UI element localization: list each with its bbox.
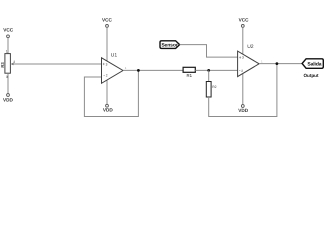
svg-text:3: 3 [106, 63, 108, 67]
svg-text:Salida: Salida [307, 62, 321, 68]
svg-text:2: 2 [241, 69, 243, 73]
svg-text:1: 1 [6, 50, 8, 54]
svg-text:U1: U1 [111, 52, 118, 58]
node junction at U2 output [276, 62, 279, 65]
power VCC (above U1) [102, 18, 113, 28]
wire U2 V- pin to VDD [242, 74, 244, 105]
svg-text:Output: Output [303, 73, 319, 78]
svg-text:U2: U2 [247, 44, 254, 50]
net label Sensor [160, 41, 180, 49]
wire U1 inverting input feedback loop [84, 70, 138, 116]
node junction at U1 output [137, 69, 140, 72]
svg-text:VCC: VCC [3, 27, 14, 32]
power VCC (above U2) [239, 18, 250, 28]
svg-text:VCC: VCC [102, 18, 113, 23]
resistor R1 [183, 67, 195, 78]
svg-text:VDD: VDD [3, 98, 14, 103]
svg-text:R3: R3 [0, 62, 5, 68]
svg-text:VDD: VDD [103, 108, 114, 113]
wire U1 output to R1 [123, 69, 183, 71]
resistor R2 [206, 82, 216, 98]
wire R1 to U2 inverting input [195, 69, 237, 71]
wire VCC to U1 V+ pin [106, 27, 108, 61]
wire U2 output to Salida [259, 63, 302, 65]
wire VCC to R3 top [7, 38, 9, 54]
svg-text:2: 2 [106, 74, 108, 78]
node junction R1/R2 [207, 69, 210, 72]
wire VCC to U2 V+ pin [242, 27, 244, 54]
wire U1 V- pin to VDD [106, 80, 108, 104]
op-amp U1 [102, 52, 127, 83]
svg-text:VCC: VCC [239, 18, 250, 23]
power VCC (left, for R3) [3, 27, 14, 37]
power VDD (below U1) [103, 104, 114, 112]
wire R3 bottom to VDD [7, 73, 9, 93]
svg-text:R2: R2 [212, 85, 216, 89]
wire R3 wiper to U1 noninverting input [11, 63, 102, 65]
net label Salida [302, 59, 323, 69]
svg-text:Sensor: Sensor [161, 43, 178, 49]
svg-text:VDD: VDD [238, 108, 249, 113]
wire junction down to R2 [208, 70, 210, 81]
power VDD (left, for R3) [3, 94, 14, 103]
svg-text:3: 3 [242, 56, 244, 60]
op-amp U2 [238, 44, 263, 77]
potentiometer R3 [0, 50, 15, 79]
wire R2 bottom to U2 output feedback [209, 64, 277, 117]
wire Sensor to U2 noninverting input [180, 45, 238, 58]
svg-text:R1: R1 [187, 73, 193, 78]
power VDD (below U2) [238, 105, 249, 114]
